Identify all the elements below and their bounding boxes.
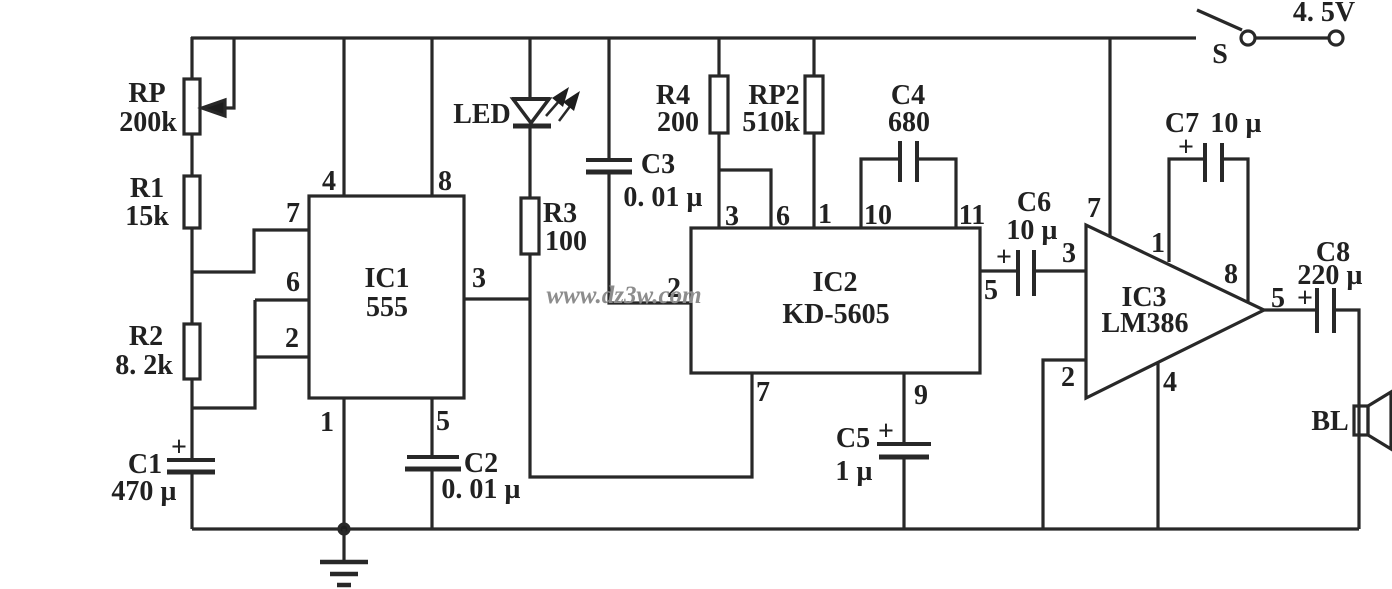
wire pin1 IC3 riser: [1169, 159, 1205, 262]
switch S: [1197, 10, 1242, 30]
capacitor C2: [407, 455, 459, 459]
wire pin5 IC2 to C6: [980, 269, 1018, 272]
svg-text:LM386: LM386: [1101, 308, 1188, 339]
wire pin5 IC1: [430, 398, 433, 457]
svg-text:10: 10: [864, 200, 892, 231]
wire pin4 IC1: [342, 38, 345, 196]
capacitor C5: [877, 442, 931, 446]
wire C3 branch top: [607, 38, 610, 160]
capacitor C3: [586, 158, 632, 162]
wire RP to R1: [190, 134, 193, 176]
svg-text:5: 5: [436, 406, 450, 437]
svg-text:4. 5V: 4. 5V: [1293, 0, 1355, 28]
svg-text:R3: R3: [543, 198, 577, 229]
svg-text:9: 9: [914, 380, 928, 411]
svg-text:10 µ: 10 µ: [1210, 108, 1261, 139]
wire node 2-6 junction: [192, 300, 255, 408]
wire pin3 IC1: [464, 297, 530, 300]
wire pin11 riser: [917, 159, 956, 228]
svg-text:C5: C5: [836, 423, 870, 454]
wire R4 branch top: [717, 38, 720, 76]
svg-text:10 µ: 10 µ: [1006, 215, 1057, 246]
wire RP2 to pin1 IC2: [812, 133, 815, 228]
capacitor C7: [1203, 143, 1207, 182]
svg-text:+: +: [996, 242, 1012, 273]
svg-text:KD-5605: KD-5605: [782, 299, 889, 330]
svg-text:LED: LED: [453, 99, 511, 130]
svg-text:555: 555: [366, 292, 408, 323]
svg-text:R1: R1: [130, 173, 164, 204]
ground: [339, 524, 349, 534]
svg-text:1: 1: [320, 407, 334, 438]
svg-text:5: 5: [984, 275, 998, 306]
svg-text:IC2: IC2: [812, 267, 857, 298]
svg-text:200k: 200k: [119, 107, 177, 138]
svg-text:RP: RP: [128, 78, 165, 109]
capacitor C4: [898, 141, 902, 182]
svg-text:0. 01 µ: 0. 01 µ: [441, 474, 520, 505]
svg-text:470 µ: 470 µ: [111, 476, 176, 507]
op-amp U IC1 555 box: [309, 196, 464, 398]
svg-text:1: 1: [818, 199, 832, 230]
op-amp U IC3 LM386 triangle: [1086, 225, 1264, 398]
wire bottom ground rail: [192, 527, 1359, 530]
wire pin3-pin6 bridge: [719, 170, 771, 228]
svg-text:www.dz3w.com: www.dz3w.com: [546, 282, 701, 309]
svg-text:C6: C6: [1017, 187, 1051, 218]
wire C3 to IC2 pin2: [609, 173, 691, 303]
wire C8 to speaker: [1334, 310, 1359, 529]
svg-text:15k: 15k: [125, 201, 169, 232]
wire R2 to C1: [190, 379, 193, 460]
wire pin6 IC1: [255, 298, 309, 301]
wire pin10 riser: [861, 159, 900, 228]
wire C1 to bottom rail: [190, 473, 193, 529]
svg-text:C3: C3: [641, 149, 675, 180]
svg-text:6: 6: [776, 201, 790, 232]
svg-text:3: 3: [1062, 238, 1076, 269]
potentiometer RP2: [805, 76, 823, 133]
svg-text:7: 7: [756, 377, 770, 408]
wire C6 to pin3 IC3: [1034, 269, 1086, 272]
wire C5 to bottom rail: [902, 458, 905, 529]
svg-text:BL: BL: [1311, 406, 1348, 437]
svg-text:0. 01 µ: 0. 01 µ: [623, 182, 702, 213]
wire left rail top segment: [190, 37, 193, 80]
capacitor C1: [167, 458, 215, 462]
capacitor C6: [1016, 250, 1020, 296]
wire pin9 IC2: [902, 373, 905, 444]
op-amp U IC2 KD-5605 box: [691, 228, 980, 373]
wire pin2 IC3: [1043, 360, 1086, 529]
resistor R1: [184, 176, 200, 228]
svg-text:8: 8: [438, 166, 452, 197]
svg-text:4: 4: [1163, 367, 1177, 398]
svg-text:8. 2k: 8. 2k: [115, 350, 173, 381]
LED: [512, 97, 550, 101]
svg-text:2: 2: [285, 323, 299, 354]
svg-text:6: 6: [286, 267, 300, 298]
wire pin8 IC3 riser: [1222, 159, 1248, 302]
svg-text:+: +: [878, 416, 894, 447]
svg-text:8: 8: [1224, 259, 1238, 290]
wire RP2 branch top: [812, 38, 815, 76]
wire pin5 IC3 output: [1264, 308, 1317, 311]
svg-text:7: 7: [1087, 193, 1101, 224]
svg-text:1: 1: [1151, 228, 1165, 259]
svg-text:1 µ: 1 µ: [835, 456, 872, 487]
svg-text:680: 680: [888, 107, 930, 138]
speaker BL: [1354, 406, 1368, 435]
wire pin1 IC1: [342, 398, 345, 529]
capacitor C8: [1315, 288, 1319, 333]
resistor R2: [184, 324, 200, 379]
svg-text:5: 5: [1271, 283, 1285, 314]
wire C2 to bottom rail: [430, 470, 433, 529]
svg-text:R2: R2: [129, 321, 163, 352]
svg-text:510k: 510k: [742, 107, 800, 138]
svg-text:3: 3: [472, 263, 486, 294]
wire pin8 IC1: [430, 38, 433, 196]
wire pin7 IC1: [192, 230, 309, 272]
svg-text:S: S: [1212, 39, 1228, 70]
wire pin4 IC3: [1156, 362, 1159, 529]
resistor R4: [710, 76, 728, 133]
svg-text:+: +: [1178, 132, 1194, 163]
wire LED to R3: [528, 126, 531, 198]
potentiometer RP: [184, 79, 200, 134]
svg-text:7: 7: [286, 198, 300, 229]
svg-text:+: +: [171, 432, 187, 463]
svg-text:100: 100: [545, 226, 587, 257]
wire RP wiper: [223, 38, 234, 108]
svg-text:200: 200: [657, 107, 699, 138]
svg-text:2: 2: [1061, 362, 1075, 393]
svg-text:4: 4: [322, 166, 336, 197]
wire R4 to pin3 IC2: [717, 133, 720, 228]
svg-text:IC1: IC1: [364, 263, 409, 294]
wire pin2 IC1: [255, 355, 309, 358]
svg-text:11: 11: [959, 200, 985, 231]
wire pin7 IC3 riser: [1108, 38, 1111, 237]
wire R3 down to IC2 pin7: [530, 254, 752, 477]
svg-text:3: 3: [725, 201, 739, 232]
wire R1 to R2: [190, 228, 193, 324]
resistor R3: [521, 198, 539, 254]
wire top supply rail: [191, 36, 1196, 39]
svg-text:220 µ: 220 µ: [1297, 260, 1362, 291]
wire LED branch top: [528, 38, 531, 99]
